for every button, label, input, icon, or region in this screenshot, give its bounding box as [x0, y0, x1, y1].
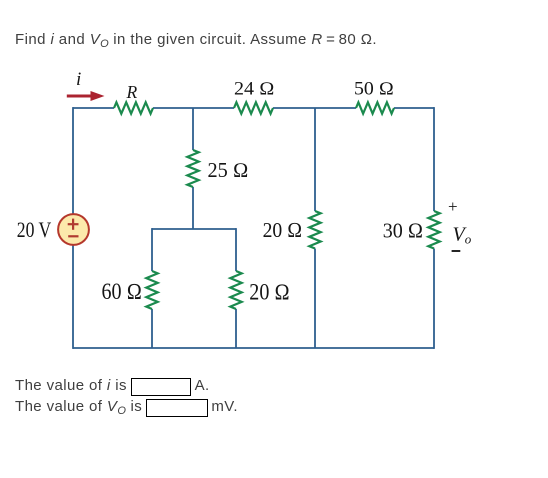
svg-text:20 Ω: 20 Ω: [249, 279, 289, 304]
svg-text:R: R: [126, 82, 138, 102]
svg-text:20 Ω: 20 Ω: [263, 218, 303, 242]
svg-text:50 Ω: 50 Ω: [354, 80, 394, 100]
svg-text:60 Ω: 60 Ω: [102, 279, 143, 304]
svg-text:25 Ω: 25 Ω: [208, 159, 249, 182]
svg-text:o: o: [465, 232, 472, 247]
svg-text:24 Ω: 24 Ω: [234, 80, 275, 100]
svg-text:30 Ω: 30 Ω: [383, 219, 424, 243]
svg-text:+: +: [448, 197, 458, 216]
svg-text:i: i: [76, 69, 81, 90]
svg-text:20 V: 20 V: [17, 217, 52, 242]
